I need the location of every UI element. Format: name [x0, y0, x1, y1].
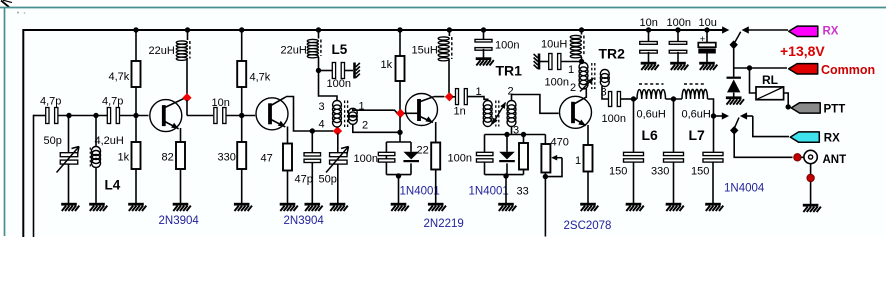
- ground (antenna): [803, 204, 819, 207]
- svg-text:100n: 100n: [545, 77, 569, 89]
- node: shield (red): [807, 174, 814, 181]
- svg-text:2: 2: [508, 86, 514, 98]
- capacitor 1n: [456, 89, 459, 105]
- capacitor 4,7p (second): [107, 108, 110, 124]
- capacitor 100n (supply bypass): [677, 30, 679, 43]
- ground (82): [173, 203, 189, 206]
- wire: TR1 pin 2 to Q4 base: [512, 95, 559, 114]
- capacitor 100n (L5 top bypass): [332, 63, 335, 79]
- wire: base node to R 330: [241, 116, 243, 143]
- trimmer capacitor 50p (osc): [337, 133, 339, 153]
- ground (1N4004): [726, 96, 742, 99]
- ground (47p): [305, 203, 321, 206]
- svg-text:4,7k: 4,7k: [250, 72, 271, 84]
- transformer L5 winding 3-4: [333, 101, 342, 127]
- node: supply bus / R 4,7k (2): [239, 27, 244, 32]
- transistor Q3 2N2219: [406, 94, 438, 126]
- svg-text:1: 1: [568, 64, 574, 76]
- resistor R 1k (Q3 bias): [396, 56, 405, 81]
- transformer TR1 core: [495, 101, 497, 127]
- svg-text:1: 1: [575, 155, 581, 167]
- transformer TR1 tuning arrow: [493, 103, 506, 125]
- inductor 15uH (Q3 collector): [448, 30, 450, 36]
- wire: Q1 collector to C 10n: [186, 100, 188, 116]
- node: supply bus / C 100n: [675, 27, 680, 32]
- ground (50p osc): [330, 203, 346, 206]
- svg-text:1n: 1n: [454, 106, 466, 118]
- node: PTT: [786, 104, 791, 109]
- wire: 1 ohm to ground: [587, 172, 589, 204]
- ground (100n): [670, 62, 686, 65]
- svg-text:22uH: 22uH: [281, 45, 307, 57]
- node: 22uH / 100n junction: [316, 68, 321, 73]
- svg-text:50p: 50p: [44, 135, 62, 147]
- svg-text:L4: L4: [105, 178, 121, 193]
- ground (100n TR2, side): [538, 54, 541, 70]
- diode 1N4001 (TR1 match): [506, 135, 508, 152]
- frame: teal window border top: [0, 7, 886, 9]
- transformer L5 core: [344, 101, 346, 128]
- node: clamp bottom: [396, 173, 401, 178]
- capacitor 150 (filter out): [713, 116, 715, 153]
- ground (R 1k): [128, 203, 144, 206]
- svg-text:0,6uH: 0,6uH: [682, 109, 711, 121]
- svg-text:10n: 10n: [640, 17, 658, 29]
- ground (150 in): [626, 203, 642, 206]
- svg-text:2: 2: [570, 82, 576, 94]
- transformer TR2 tuning arrow: [580, 78, 594, 92]
- svg-text:1: 1: [476, 86, 482, 98]
- resistor R 330 (Q2 bias low): [237, 142, 246, 169]
- node: Q3 base (red): [396, 109, 405, 118]
- frame: teal window border left: [4, 8, 6, 237]
- node: clamp junction: [397, 130, 402, 135]
- resistor 1 (Q4 emitter): [584, 145, 593, 172]
- transistor Q2 2N3904: [256, 98, 288, 130]
- wire: R 4,7k to Q2 base node: [241, 87, 243, 116]
- wire: 100n to ground: [345, 70, 353, 72]
- node: filter input: [631, 96, 636, 101]
- svg-text:4,7k: 4,7k: [109, 71, 130, 83]
- svg-text:2N3904: 2N3904: [159, 215, 200, 227]
- svg-text:1k: 1k: [118, 152, 130, 164]
- wire: C 10n to Q2 base node: [226, 115, 255, 117]
- trimmer capacitor 50p (input): [68, 116, 70, 154]
- wire: coil feed: [750, 68, 757, 93]
- svg-text:2N3904: 2N3904: [284, 215, 325, 227]
- node: Common / relay coil: [747, 65, 752, 70]
- antenna switch blade: [735, 118, 739, 128]
- node: supply bus / R 1k (3): [397, 27, 402, 32]
- node: 470 bottom: [543, 174, 548, 179]
- ground (1 ohm): [580, 203, 596, 206]
- svg-text:+13,8V: +13,8V: [780, 43, 825, 59]
- transistor Q4 2SC2078: [560, 96, 592, 128]
- svg-text:0,6uH: 0,6uH: [637, 109, 666, 121]
- svg-text:100n: 100n: [602, 113, 626, 125]
- wire: to connector: [801, 156, 804, 158]
- antenna switch: TX arrow: [714, 115, 723, 117]
- node: L5 pin 4 (red): [333, 126, 342, 135]
- resistor 82 (Q1 emitter): [176, 142, 185, 169]
- wire: ground to C 100n: [539, 61, 549, 63]
- wire: C 1n to TR1 pin 1: [468, 97, 488, 101]
- wire: clamp to ground: [398, 175, 400, 203]
- wire: antenna input line (cut off at bottom): [33, 115, 35, 237]
- svg-text:PTT: PTT: [824, 104, 846, 116]
- wire: C 100n to pin 1 node: [561, 61, 581, 63]
- relay blade (upper): [735, 32, 741, 42]
- resistor 22 (Q3 emitter): [431, 143, 440, 170]
- node: antenna switch TX contact node: [711, 113, 716, 118]
- wire: TR1 pin 3 to matching node: [511, 127, 513, 135]
- wire: 22 to ground: [435, 170, 437, 204]
- node: Q3 collector (red): [445, 92, 454, 101]
- wire: to ground: [505, 175, 507, 203]
- svg-text:100n: 100n: [448, 153, 472, 165]
- capacitor 330 (filter mid): [673, 99, 675, 153]
- wire: C 100n to filter input: [621, 98, 632, 100]
- svg-text:1N4001: 1N4001: [469, 186, 509, 198]
- svg-text:82: 82: [162, 152, 174, 164]
- ground (10u): [699, 62, 715, 65]
- node: Q2 base junction: [239, 113, 244, 118]
- node: matching bottom: [503, 173, 508, 178]
- wire: Q2 collector loop to L5 pin 4: [286, 97, 333, 132]
- wire: Q4 collector to TR2 pin 2: [585, 89, 587, 98]
- capacitor 100n (supply bypass TR1): [483, 30, 485, 41]
- transformer TR1 secondary: [507, 101, 516, 127]
- svg-text:10uH: 10uH: [541, 39, 567, 51]
- transformer TR2 core: [591, 63, 593, 89]
- svg-text:RX: RX: [824, 133, 840, 145]
- wire: RX contact to RX tag: [753, 116, 789, 137]
- svg-text:150: 150: [691, 166, 709, 178]
- wire: input to C 4,7p: [34, 115, 46, 117]
- svg-text:Common: Common: [821, 63, 875, 77]
- wire: R 4,7k to base node: [135, 87, 137, 116]
- node: supply bus / R 4,7k: [133, 27, 138, 32]
- wire: L7 to antenna switch: [708, 99, 714, 116]
- wire: R 1k to Q3 base node: [399, 81, 401, 111]
- wire: R 330 to ground: [241, 169, 243, 203]
- capacitor 10u electrolytic (supply): [706, 30, 708, 43]
- node: junction input/L4: [93, 113, 98, 118]
- wire: shield to ground: [810, 182, 812, 204]
- wire: L5 pin 2 to base clamp node: [353, 124, 399, 132]
- svg-text:RX: RX: [823, 26, 839, 38]
- node: relay pole (upper): [730, 40, 738, 49]
- frame: stray corner mark: [1, 1, 9, 8]
- wire: R 1k to ground: [135, 169, 137, 203]
- wire: matching bottom rail: [485, 174, 524, 176]
- svg-text:10u: 10u: [699, 17, 717, 29]
- svg-text:3: 3: [319, 101, 325, 113]
- svg-text:100n: 100n: [327, 78, 351, 90]
- wire: L5 pin 1 to Q3 base (red node): [353, 108, 398, 113]
- wire: base node to R 1k: [135, 116, 137, 143]
- tag RX (relay NC, magenta): [789, 26, 818, 36]
- svg-text:1N4004: 1N4004: [724, 183, 765, 195]
- node: supply bus / L 10uH: [579, 27, 584, 32]
- wire: 82 to ground: [180, 169, 182, 203]
- potentiometer 470: [544, 135, 546, 145]
- ground (100n side): [353, 63, 356, 79]
- svg-text:1k: 1k: [381, 59, 393, 71]
- wire: base node down to clamp: [399, 117, 401, 133]
- inductor 22uH (Q2 collector feed): [318, 30, 320, 39]
- ground (100n TR1): [476, 57, 492, 60]
- svg-text:47p: 47p: [295, 174, 313, 186]
- svg-text:TR2: TR2: [599, 46, 626, 62]
- inductor L6 0,6uH: [634, 98, 638, 100]
- ground (150 out): [705, 203, 721, 206]
- node: diode branch: [504, 132, 509, 137]
- node: supply bus / L 22uH (2): [316, 27, 321, 32]
- wire: bus end arrow (to relay contact): [722, 26, 729, 33]
- inductor 10uH (Q4 feed): [581, 30, 583, 35]
- capacitor 100n (Q3 base clamp): [378, 152, 395, 155]
- wire: bus to R 4,7k (2): [241, 30, 243, 61]
- wire: connector shield down: [810, 164, 812, 175]
- capacitor 10n (interstage): [214, 108, 217, 124]
- relay coil RL: [756, 87, 784, 100]
- svg-text:50p: 50p: [319, 174, 337, 186]
- tag Common (red): [789, 64, 818, 74]
- capacitor 100n (output coupling): [609, 92, 612, 107]
- tag PTT (grey): [791, 103, 820, 113]
- wire: to Q1 base node: [120, 115, 149, 117]
- svg-text:2SC2078: 2SC2078: [564, 220, 612, 232]
- wire: clamp stub: [399, 132, 401, 142]
- svg-text:4,7p: 4,7p: [102, 96, 123, 108]
- svg-text:47: 47: [261, 153, 273, 165]
- wire: bus to R 1k: [399, 30, 401, 56]
- node: antenna pole: [730, 126, 738, 135]
- wire: pole to antenna: [734, 133, 792, 157]
- transformer TR2 winding 1-2: [582, 62, 584, 64]
- svg-text:470: 470: [551, 137, 569, 149]
- capacitor 100n (TR2 pin1 bypass): [549, 54, 552, 70]
- node: 47p junction: [310, 128, 315, 133]
- connector ANT: [804, 150, 817, 163]
- relay contact: RX-line arrow: [742, 26, 749, 33]
- svg-text:ANT: ANT: [823, 154, 847, 166]
- svg-text:15uH: 15uH: [412, 45, 438, 57]
- wire: Q3 collector node: [434, 96, 445, 98]
- wire: junction down to L5 pin 3: [319, 71, 338, 101]
- svg-text:22: 22: [417, 145, 429, 157]
- svg-text:L6: L6: [642, 127, 659, 143]
- svg-text:1N4001: 1N4001: [400, 186, 440, 198]
- node: TR2 pin 1 node: [579, 59, 584, 64]
- wire: 47 to ground: [287, 171, 289, 204]
- wire: junction to C 100n: [319, 70, 334, 72]
- resistor R 4,7k (Q1 bias): [132, 61, 141, 87]
- node: supply bus / C 100n (TR1 area): [481, 27, 486, 32]
- node: supply bus / C 10u: [704, 27, 709, 32]
- node: filter mid: [671, 96, 676, 101]
- svg-text:100n: 100n: [667, 17, 691, 29]
- ground (L4): [89, 203, 105, 206]
- svg-text:100n: 100n: [495, 40, 519, 52]
- ground (R 330): [234, 203, 250, 206]
- wire: input node: [58, 115, 107, 117]
- transformer TR2 winding 3: [600, 70, 609, 87]
- tag RX (receiver, cyan): [790, 132, 819, 142]
- svg-text:330: 330: [218, 152, 236, 164]
- ground (matching): [498, 203, 514, 206]
- wire: collector to C 1n: [453, 96, 457, 98]
- svg-text:L7: L7: [689, 127, 706, 143]
- svg-text:150: 150: [609, 166, 627, 178]
- svg-text:2: 2: [362, 120, 368, 132]
- ground (50p input): [61, 203, 77, 206]
- resistor 33: [523, 135, 525, 144]
- wire: pole to Common rail: [733, 47, 735, 68]
- node: junction input/50p: [66, 113, 71, 118]
- wire: 470 to PTT keying line (cut off at bottom): [544, 177, 546, 237]
- svg-text:33: 33: [517, 186, 529, 198]
- node: supply bus / L 15uH: [447, 27, 452, 32]
- diode 1N4004 (supply clamp): [733, 68, 735, 77]
- capacitor 10n (supply bypass): [648, 30, 650, 43]
- capacitor 47p: [311, 131, 313, 153]
- svg-text:4,7p: 4,7p: [40, 96, 61, 108]
- svg-text:100n: 100n: [354, 153, 378, 165]
- svg-text:TR1: TR1: [496, 63, 523, 79]
- wire: matching node rail: [485, 134, 546, 136]
- wire: TR2 pin 3 to C 100n: [602, 86, 609, 99]
- ground (22): [428, 203, 444, 206]
- svg-text:2N2219: 2N2219: [424, 218, 464, 230]
- capacitor 150 (filter in): [633, 99, 635, 153]
- inductor 22uH (Q1 collector): [187, 30, 189, 40]
- node: supply bus / C 10n: [646, 27, 651, 32]
- transistor Q1 2N3904: [150, 100, 182, 132]
- node: R 33 branch: [521, 132, 526, 137]
- svg-text:4: 4: [319, 119, 325, 131]
- wire: coil to PTT: [784, 93, 789, 107]
- transformer TR1 primary 1: [483, 101, 492, 127]
- wire: L6 to L7: [666, 98, 683, 100]
- wire: schematic frame left edge (cut off at bottom): [22, 29, 24, 237]
- inductor L7 0,6uH: [682, 89, 708, 99]
- capacitor 100n (TR1 match): [484, 135, 486, 154]
- transformer L5 winding 1-2: [348, 108, 357, 124]
- ground (47): [280, 203, 296, 206]
- ground (clamp): [391, 203, 407, 206]
- ground (330): [666, 203, 682, 206]
- resistor 47 (Q2 emitter): [283, 144, 292, 171]
- svg-text:4,2uH: 4,2uH: [95, 135, 124, 147]
- resistor R 1k (Q1 bias low): [132, 142, 141, 169]
- resistor R 4,7k (Q2 bias): [237, 61, 246, 87]
- svg-text:10n: 10n: [212, 97, 230, 109]
- node: supply bus / L 22uH: [185, 27, 190, 32]
- svg-text:RL: RL: [762, 73, 778, 87]
- clamp box: 100n parallel 1N4001: [386, 141, 411, 143]
- node: Q1 base junction: [133, 113, 138, 118]
- node: Q1 collector (red): [182, 93, 191, 102]
- ground (10n): [641, 62, 657, 65]
- wire: bus to R 4,7k: [135, 30, 137, 61]
- svg-text:L5: L5: [332, 42, 348, 57]
- capacitor 4,7p (input): [46, 108, 49, 124]
- svg-text:330: 330: [651, 166, 669, 178]
- inductor L4 4,2uH: [95, 116, 97, 147]
- wire: TR2 winding2 to Q4 collector: [584, 88, 587, 90]
- svg-text:22uH: 22uH: [149, 45, 175, 57]
- antenna switch: RX arrow: [740, 112, 747, 119]
- wire: +13,8V top supply bus: [23, 29, 722, 31]
- diode 1N4001 (Q3 base clamp): [403, 152, 419, 160]
- svg-text:+: +: [700, 34, 706, 45]
- node: antenna feed (red): [794, 154, 801, 161]
